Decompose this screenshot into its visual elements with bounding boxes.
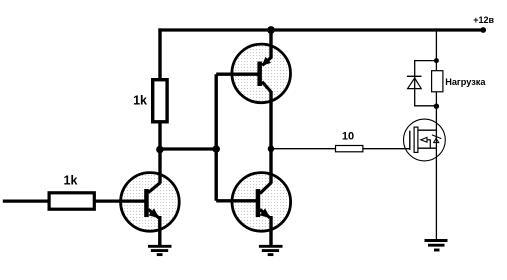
svg-text:1k: 1k — [133, 94, 147, 108]
wire node A to base column — [158, 147, 216, 150]
wire R2 to Q1 base — [95, 199, 147, 202]
transistor Q1 body (NPN, left) — [121, 173, 180, 232]
node terminal +12v — [480, 27, 486, 33]
svg-text:Нагрузка: Нагрузка — [445, 77, 486, 87]
svg-text:10: 10 — [342, 131, 354, 143]
transistor Q2 internals: base bar, emitter+arrow, collector — [257, 57, 271, 92]
wire base of Q3 — [216, 199, 258, 202]
wire Q1 emitter to ground — [158, 216, 161, 245]
diode VD1 triangle — [408, 78, 422, 89]
transistor Q3 internals: base bar, collector, emitter, arrow — [256, 183, 271, 218]
node junction base column — [212, 145, 220, 153]
wire Q3 collector from node B — [269, 148, 272, 184]
resistor R3 10 (gate) — [336, 146, 363, 152]
wire node B to R3 — [272, 148, 336, 150]
svg-text:+12в: +12в — [473, 15, 494, 25]
transistor Q3 body (NPN, bottom middle) — [232, 173, 291, 232]
wire diode branch verticals/horizontals — [414, 61, 416, 106]
wire input left — [3, 199, 50, 202]
MOSFET VT1 — [404, 119, 446, 161]
resistor R1 1k (vertical) — [153, 80, 167, 122]
resistor R2 1k (horizontal input) — [49, 193, 94, 209]
node A junction — [156, 146, 164, 154]
node junction load top — [434, 58, 439, 63]
wire Q3 emitter to ground — [269, 216, 272, 245]
wire R3 to MOSFET gate — [364, 148, 411, 150]
wire left column from rail to R1 — [158, 28, 161, 80]
diode VD1 cathode bar — [407, 75, 422, 77]
wire base of Q2 — [216, 73, 259, 76]
wire Q2 collector to node B — [269, 91, 272, 150]
wire +12V rail — [158, 28, 484, 31]
wire base column vertical — [214, 74, 217, 201]
node junction load bottom — [434, 104, 439, 109]
wire Q2 emitter from rail — [269, 28, 272, 58]
transistor Q1 internals: base bar, collector, emitter, arrow — [144, 183, 160, 218]
ground (Q3) — [259, 246, 283, 254]
node B junction — [268, 146, 275, 153]
svg-text:1k: 1k — [64, 174, 78, 188]
ground (MOSFET) — [425, 241, 448, 251]
wire R1 bottom to node A and Q1 collector — [158, 122, 161, 184]
transistor Q2 body (PNP, top middle) — [232, 44, 291, 103]
ground (Q1) — [148, 246, 172, 254]
wire main right vertical (rail to load, drain, source to ground) — [435, 28, 437, 239]
body diode of VT1 — [432, 135, 441, 143]
load resistor — [432, 71, 443, 92]
junction on rail (Q2 emitter) — [267, 26, 275, 34]
